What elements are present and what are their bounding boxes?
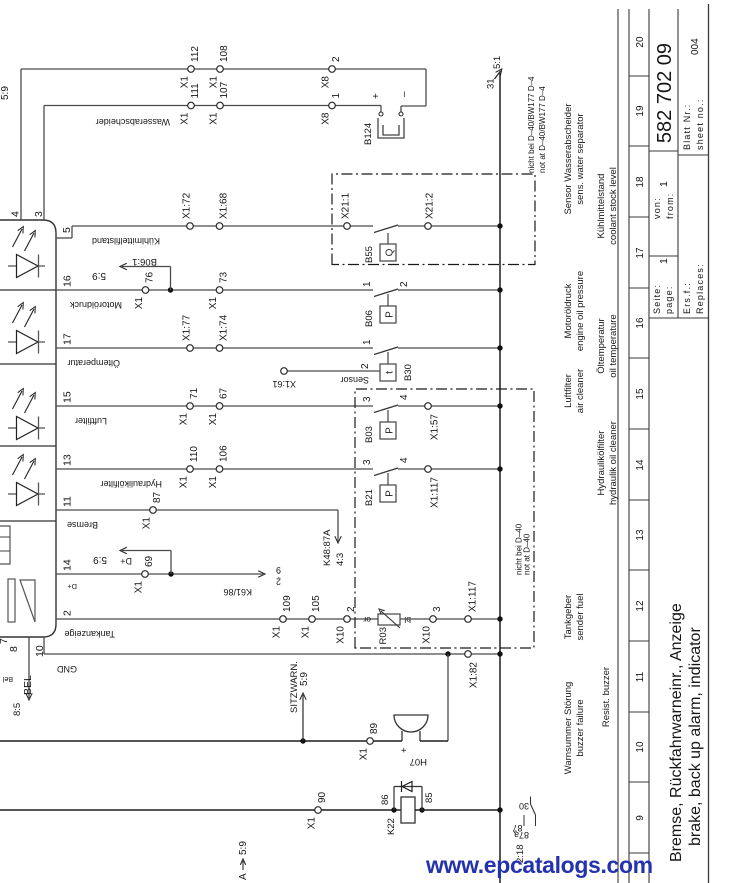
svg-text:8:5: 8:5 [12,703,23,716]
svg-text:5:9: 5:9 [238,841,249,855]
svg-text:86: 86 [380,794,391,805]
svg-text:B06: B06 [364,310,375,327]
svg-text:5:9: 5:9 [299,672,310,686]
svg-text:X1:57: X1:57 [430,414,441,441]
svg-text:9: 9 [635,815,646,821]
svg-text:+: + [371,93,382,99]
wire pin4 horizontal [20,69,22,220]
wire from sensor B30 to rail [398,347,500,349]
svg-text:16: 16 [62,275,74,287]
connector X1:82 [465,651,472,658]
svg-text:14: 14 [62,559,74,571]
wire ground rail net 31 [499,73,501,883]
junction dot rail B55 [497,223,502,228]
branch wire to 5:9 [170,551,172,575]
svg-text:Bremse: Bremse [67,520,98,530]
svg-text:D+: D+ [120,556,132,566]
connector X8 pin1 [329,102,336,109]
junction dot rail GND [497,651,502,656]
branch arrow to K48:87A [337,510,339,541]
sensor B03 element stub [387,410,389,422]
cluster gauge symbol (cut) upper [0,526,10,564]
svg-text:Motoröldruck: Motoröldruck [69,300,122,310]
svg-text:18: 18 [635,176,646,188]
wire from cluster to sensor B30 [56,347,373,349]
connector X1:68 [216,223,223,230]
svg-text:90: 90 [317,791,328,803]
svg-text:17: 17 [635,247,646,259]
svg-text:nicht bei D–40/BW177 D–4: nicht bei D–40/BW177 D–4 [527,76,536,173]
svg-text:B03: B03 [364,426,375,443]
svg-text:3: 3 [362,459,373,465]
column number strip dividers [629,852,649,854]
svg-text:5:9: 5:9 [0,86,11,100]
svg-text:10: 10 [635,741,646,753]
sensor B55 element stub [387,233,389,244]
svg-text:109: 109 [282,595,293,612]
B30 sensor ground stub wire [284,370,380,372]
sensor B30 element stub [387,352,389,364]
svg-text:page:: page: [664,285,674,314]
title block cell dividers [649,317,709,319]
svg-text:Luftfilter: Luftfilter [75,416,107,426]
junction dot SITZWARN branch [300,738,305,743]
svg-text:69: 69 [144,555,155,567]
svg-text:71: 71 [189,387,200,399]
pin5 wire lower run [398,225,500,227]
arrow to K61/86 [258,571,265,577]
svg-text:not at D–40/BW177 D–4: not at D–40/BW177 D–4 [538,86,547,173]
svg-text:1: 1 [331,93,342,99]
svg-text:31: 31 [486,78,497,89]
svg-text:X1:74: X1:74 [219,314,230,341]
sensor B06 element stub [387,294,389,306]
svg-text:108: 108 [219,45,230,62]
svg-text:coolant stock level: coolant stock level [608,167,619,245]
sensor B30 element box [380,364,396,381]
svg-text:9: 9 [276,565,281,575]
wire buzzer to GND branch [420,740,448,742]
svg-text:Bremse, Rückfahrwarneinr., Anz: Bremse, Rückfahrwarneinr., Anzeige [668,603,685,862]
svg-text:Motoröldruck: Motoröldruck [563,283,574,338]
wire from cluster to sensor B06 [56,289,373,291]
svg-text:Sensor: Sensor [340,375,369,385]
wire pin3 vertical run [44,105,381,107]
svg-text:Sensor Wasserabscheider: Sensor Wasserabscheider [563,103,574,214]
svg-text:brake, back up alarm, indicato: brake, back up alarm, indicator [687,627,704,846]
svg-text:X1:117: X1:117 [430,477,441,508]
svg-text:X1: X1 [301,626,312,639]
wire GND vertical [44,653,500,655]
svg-text:Hydraulikölfilter: Hydraulikölfilter [596,431,607,496]
svg-text:Q: Q [385,248,396,256]
wire K22 coil to rail [415,809,500,811]
svg-text:106: 106 [219,445,230,462]
sensor B03 switch blade [374,405,398,413]
svg-text:Bel: Bel [2,675,13,682]
svg-text:X1: X1 [208,297,219,310]
branch wire GND to buzzer [447,654,449,741]
connector X21:2 [425,223,432,230]
svg-text:Öltemperatur: Öltemperatur [596,318,607,373]
cluster cell divider [0,289,56,291]
svg-text:Wasserabscheider: Wasserabscheider [96,117,170,127]
cluster cell divider [0,520,56,522]
svg-text:sens. water separator: sens. water separator [575,113,586,204]
connector X1:61 end circle [281,368,288,375]
wire K22 branch vertical [0,809,401,811]
junction dot rail B21 [497,466,502,471]
svg-text:X1: X1 [209,76,220,89]
sensor B03 element box [380,422,396,439]
svg-text:X1: X1 [359,748,370,761]
svg-text:87: 87 [152,491,163,503]
svg-text:4: 4 [399,394,410,400]
wire pin11 Bremse [56,509,338,511]
dash-dot box around B03 B21 R03 sensors [355,389,534,648]
indicator LED lamp in cluster [8,341,17,343]
svg-text:2: 2 [331,56,342,62]
svg-text:X1: X1 [209,112,220,125]
svg-text:D+: D+ [67,582,77,591]
svg-text:Seite:: Seite: [652,284,662,314]
svg-text:t: t [385,371,396,374]
wire elbow to B124 [425,69,427,106]
junction dot K22 coil bottom [419,807,424,812]
junction dot B06:1 branch [168,287,173,292]
svg-text:from:: from: [665,192,675,219]
svg-text:X1: X1 [180,112,191,125]
svg-text:P: P [385,427,396,434]
dash-dot box around B55 sensor [332,174,535,265]
connector X10 pin2 [344,616,351,623]
title block row lines [617,9,619,883]
svg-text:19: 19 [635,105,646,117]
svg-text:BEL: BEL [22,675,34,695]
svg-text:15: 15 [635,388,646,400]
svg-text:+: + [399,747,410,753]
junction dot rail B06 [497,287,502,292]
wire pin2 lower [400,618,500,620]
svg-text:Replaces:: Replaces: [695,263,705,314]
svg-text:X1: X1 [307,817,318,830]
svg-text:R03: R03 [378,627,389,644]
svg-text:X10: X10 [336,626,347,644]
svg-text:3: 3 [33,211,45,217]
svg-text:X1:77: X1:77 [182,314,193,341]
svg-text:1: 1 [362,339,373,345]
junction dot rail K22 [497,807,502,812]
svg-text:buzzer failure: buzzer failure [575,699,586,756]
svg-text:–: – [399,91,410,97]
svg-text:73: 73 [219,271,230,283]
wire pin5 jog at cluster [56,237,72,239]
svg-text:1: 1 [658,258,670,264]
svg-text:X1:61: X1:61 [272,379,296,389]
svg-text:GND: GND [57,664,78,674]
svg-text:not at D–40: not at D–40 [523,533,532,575]
svg-text:14: 14 [635,459,646,471]
svg-text:3: 3 [362,396,373,402]
svg-text:sender fuel: sender fuel [575,593,586,640]
instrument cluster A01 outline [0,220,56,637]
svg-text:X1: X1 [180,76,191,89]
connector X1:57 [425,403,432,410]
relay K22 coil [401,797,415,823]
wire from sensor B06 to rail [398,289,500,291]
svg-text:Ers.f.:: Ers.f.: [682,282,692,314]
svg-text:Resist. buzzer: Resist. buzzer [601,667,612,727]
svg-text:5:9: 5:9 [92,270,106,281]
svg-text:16: 16 [635,317,646,329]
svg-text:15: 15 [62,391,74,403]
svg-text:11: 11 [62,496,74,507]
sensor B55 switch blade [374,225,398,233]
backup alarm B124 horn symbol [378,118,404,138]
sensor B06 element box [380,306,396,323]
svg-text:1: 1 [362,281,373,287]
svg-text:89: 89 [369,722,380,734]
svg-text:Blatt Nr.:: Blatt Nr.: [682,103,692,150]
svg-text:SITZWARN.: SITZWARN. [289,661,300,713]
svg-text:Öltemperatur: Öltemperatur [67,358,120,368]
indicator LED lamp in cluster [8,427,17,429]
connector X1 pin111 [188,102,195,109]
svg-text:112: 112 [190,46,201,62]
svg-text:X1: X1 [179,413,190,426]
svg-text:K48:87A: K48:87A [322,529,333,566]
buzzer H07 dome [394,715,428,732]
connector X1:74 [216,345,223,352]
connector X8 pin2 [329,66,336,73]
connector X1 pin107 [217,102,224,109]
svg-text:X1: X1 [208,476,219,489]
connector X1 pin109 [280,616,287,623]
svg-text:Kühlmittelstand: Kühlmittelstand [596,174,607,239]
svg-text:2: 2 [399,281,410,287]
svg-text:X21:1: X21:1 [341,192,352,219]
svg-text:67: 67 [219,387,230,399]
svg-text:X1: X1 [134,581,145,594]
svg-text:bl: bl [404,615,411,625]
svg-text:7: 7 [0,638,10,644]
svg-text:K61/86: K61/86 [223,587,252,597]
svg-text:17: 17 [62,333,74,345]
indicator LED lamp in cluster [8,493,17,495]
svg-text:X21:2: X21:2 [425,192,436,219]
connector X1:72 [187,223,194,230]
svg-text:H07: H07 [410,756,427,767]
sensor B30 switch blade [374,347,398,355]
svg-text:X1:82: X1:82 [469,662,480,689]
svg-text:3: 3 [432,606,443,612]
svg-text:13: 13 [635,529,646,541]
K22 suppression diode loop [393,787,395,811]
buzzer H07 legs [401,731,403,741]
rail continuation arrow to 5:1 [495,71,501,79]
wire from cluster to sensor B03 [56,405,373,407]
wire pin4 vertical run [21,68,426,70]
svg-text:8: 8 [8,646,20,652]
junction dot K22 coil top [391,807,396,812]
wire pin8 Bel arrow [28,637,30,698]
sensor B06 switch blade [374,289,398,297]
svg-text:sheet no.:: sheet no.: [695,98,705,150]
K22 contact tick 30 [530,797,532,805]
svg-text:B21: B21 [364,489,375,506]
junction dot rail B30 [497,345,502,350]
svg-text:X1:117: X1:117 [468,581,479,612]
svg-text:Tankgeber: Tankgeber [563,595,574,639]
svg-text:76: 76 [145,271,156,283]
svg-text:582 702 09: 582 702 09 [654,43,676,143]
svg-text:X1:72: X1:72 [182,192,193,219]
svg-text:Luftfilter: Luftfilter [563,374,574,408]
connector X1 pin105 [309,616,316,623]
wire pin2 Tankanzeige upper [56,618,378,620]
sensor B21 switch blade [374,468,398,476]
branch wire to B06:1 cross reference [170,267,172,291]
diode across K22 coil [401,781,403,792]
svg-text:004: 004 [690,38,701,55]
backup alarm B124 terminals [379,112,383,116]
svg-text:P: P [385,311,396,318]
svg-text:B30: B30 [403,364,414,381]
connector X1 pin110 [187,466,194,473]
connector X1 pin89 [367,738,374,745]
svg-text:12: 12 [635,600,646,612]
svg-text:11: 11 [635,671,646,682]
wire pin14 D+ [56,573,263,575]
svg-text:X10: X10 [422,626,433,644]
cross-reference 9:2 [276,565,281,587]
svg-text:Hydraulikölfilter: Hydraulikölfilter [100,479,162,489]
connector X1 pin73 [216,287,223,294]
svg-text:13: 13 [62,454,74,466]
cluster cell divider [0,363,56,365]
svg-text:5:9: 5:9 [93,554,107,565]
svg-text:engine oil pressure: engine oil pressure [575,271,586,351]
svg-text:105: 105 [311,595,322,612]
branch arrow SITZWARN 5:9 [302,695,304,741]
svg-text:20: 20 [635,36,646,48]
junction dot rail B03 [497,403,502,408]
svg-text:107: 107 [219,81,230,98]
svg-text:1: 1 [658,181,670,187]
K22 contact blade [531,804,536,815]
svg-text:von:: von: [652,197,662,219]
svg-text:5:1: 5:1 [492,56,503,69]
svg-text:A: A [238,873,249,880]
svg-text:110: 110 [189,446,200,462]
wire from sensor B03 to rail [398,405,500,407]
svg-text:P: P [385,490,396,497]
connector X1 pin90 [315,807,322,814]
connector X1 pin71 [187,403,194,410]
svg-text:4: 4 [399,457,410,463]
wire buzzer branch vertical [0,740,402,742]
svg-text:or: or [363,615,371,625]
svg-text:87a: 87a [514,830,529,840]
svg-text:Tankanzeige: Tankanzeige [64,629,115,639]
connector X1 pin67 [216,403,223,410]
connector X1 pin108 [217,66,224,73]
cluster fuel gauge bar symbol [8,579,15,622]
svg-text:5: 5 [61,227,73,233]
svg-text:B124: B124 [363,123,374,145]
wire from sensor B21 to rail [398,468,500,470]
svg-text:2: 2 [62,610,74,616]
connector X1 pin112 [188,66,195,73]
svg-text:30: 30 [519,801,529,811]
resistor R03 fuel sender [378,614,400,625]
junction dot D+ branch [168,571,173,576]
svg-text:K22: K22 [386,818,397,835]
connector X1:77 [187,345,194,352]
svg-text:X8: X8 [321,76,332,89]
svg-text:4:3: 4:3 [335,553,346,566]
svg-text:www.epcatalogs.com: www.epcatalogs.com [425,852,653,878]
wire pin10 GND stub [43,637,45,654]
indicator LED lamp in cluster [8,265,17,267]
wire from cluster to sensor B21 [56,468,373,470]
junction dot rail R03 [497,616,502,621]
junction dot GND to buzzer branch [445,651,450,656]
svg-text:4: 4 [10,211,22,217]
svg-text:X1: X1 [142,517,153,530]
svg-text:oil temperature: oil temperature [608,314,619,377]
sensor B21 element box [380,485,396,502]
svg-text:X1: X1 [208,413,219,426]
sensor B55 element box with Q [380,244,396,261]
sensor B21 element stub [387,473,389,485]
svg-text:Kühlmittelfilstand: Kühlmittelfilstand [92,236,160,246]
svg-text:85: 85 [424,792,435,803]
connector X1 pin87 [150,507,157,514]
connector X1 pin69 [142,571,149,578]
cluster cell divider [0,445,56,447]
svg-text:X1: X1 [272,626,283,639]
svg-text:2: 2 [360,363,371,369]
svg-text:X1: X1 [179,476,190,489]
svg-text:B06:1: B06:1 [132,256,157,267]
svg-text:B55: B55 [364,246,375,263]
connector X1:117 at B21 [425,466,432,473]
svg-text:X1:68: X1:68 [219,192,230,219]
pin5 wire upper run [72,225,373,227]
svg-text:hydraulik oil cleaner: hydraulik oil cleaner [608,421,619,505]
connector X1 pin76 [142,287,149,294]
page frame bottom border [708,4,710,883]
connector X10 pin3 [430,616,437,623]
wire pin3 horizontal [43,106,45,221]
connector X1 pin106 [216,466,223,473]
connector X21:1 [344,223,351,230]
svg-text:Warnsummer Störung: Warnsummer Störung [563,682,574,775]
svg-text:air cleaner: air cleaner [575,369,586,413]
svg-text:111: 111 [190,83,201,99]
connector X1:117 at R03 [465,616,472,623]
cluster fuel gauge wedge symbol [20,580,35,622]
svg-text:X8: X8 [321,112,332,125]
svg-text:X1: X1 [134,297,145,310]
